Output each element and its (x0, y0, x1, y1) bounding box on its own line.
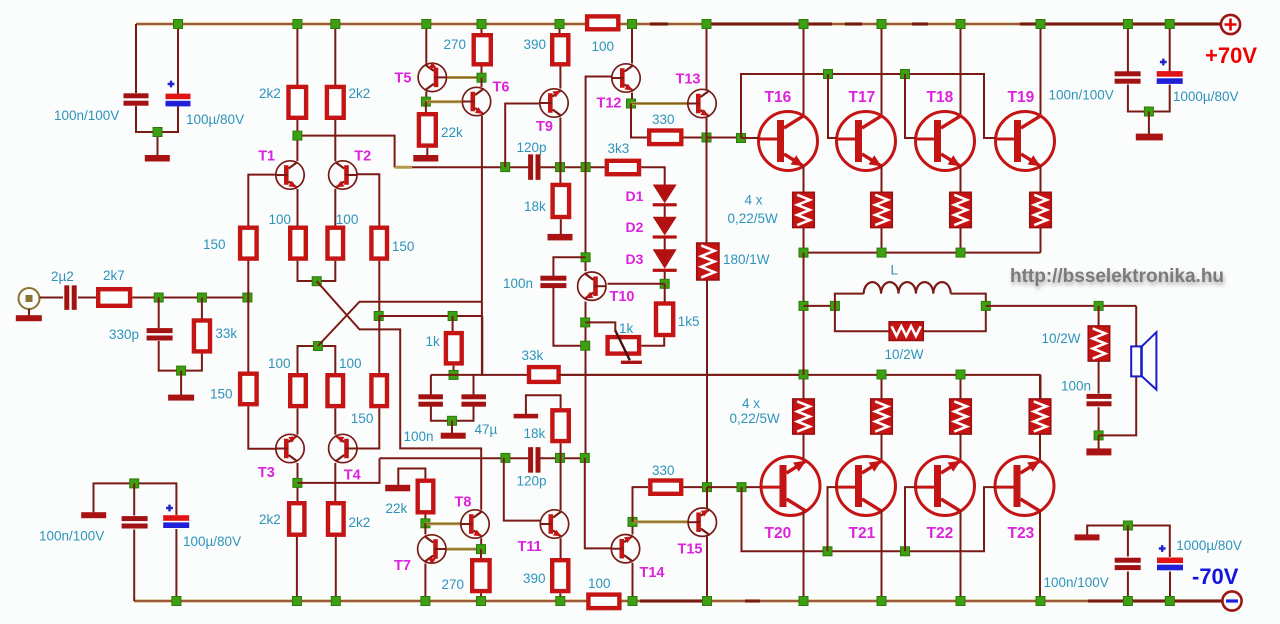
svg-text:100: 100 (588, 576, 611, 591)
node comp j585 (581, 163, 590, 172)
label 18k top (524, 199, 546, 214)
label 1k5 (678, 314, 700, 329)
diode D3 (653, 249, 677, 272)
capacitor 100n/100V bottom-left (122, 516, 148, 528)
svg-text:T14: T14 (640, 565, 665, 581)
wire 2u2 to 2k7 (78, 297, 97, 299)
node rail T16 (799, 248, 808, 257)
capacitor 100n/100V top-left (124, 93, 149, 105)
label 2k2 #4 (349, 515, 371, 530)
svg-text:100n: 100n (404, 429, 434, 444)
node BL cap top (130, 479, 139, 488)
transistor T23 (995, 457, 1054, 516)
wire T23 rail corner (1040, 375, 1042, 399)
node input net j3 (243, 293, 252, 302)
svg-text:180/1W: 180/1W (723, 252, 770, 267)
node upper tail (312, 277, 321, 286)
label T1 (258, 149, 275, 165)
wire T14 collector to bus (632, 563, 634, 601)
wire T5 bottom to 22k node (425, 92, 427, 102)
node rail T18 (956, 248, 965, 257)
svg-text:2µ2: 2µ2 (51, 269, 74, 284)
node bus TR2 (1165, 20, 1174, 29)
wire T9 base (505, 104, 540, 168)
svg-text:1000µ/80V: 1000µ/80V (1176, 538, 1242, 553)
label 100u/80V top-left (186, 112, 244, 127)
node 22k top (421, 97, 430, 106)
wire T12 emitter to node (631, 93, 633, 104)
label T18 (927, 89, 954, 106)
capacitor 100u/80V bottom-left (163, 515, 189, 528)
transistor T18 (916, 112, 975, 171)
node L left (830, 301, 839, 310)
wire T21 resistor to emitter (881, 434, 883, 461)
label -70V (1192, 564, 1239, 589)
wire D3 to bias node (664, 272, 666, 284)
node top bus x=881.5 (877, 20, 886, 29)
resistor 270 top (474, 35, 491, 64)
polarity + bottom-left elco (166, 505, 173, 512)
svg-text:47µ: 47µ (475, 422, 498, 437)
wire T8 base olive (425, 522, 460, 525)
wire T20 resistor to emitter (803, 434, 805, 461)
wire comp line y458 (380, 457, 529, 459)
svg-text:100µ/80V: 100µ/80V (183, 534, 241, 549)
transistor T1 (276, 161, 304, 189)
polarity + of top-left electrolytic (168, 81, 175, 88)
capacitor 100n mid (540, 276, 566, 288)
wire T17 collector to bus (881, 24, 883, 116)
wire T15 bottom to bus (706, 537, 708, 602)
node 330top/T13/180 (702, 133, 711, 142)
wire T12 collector to bus (631, 24, 633, 64)
svg-text:T19: T19 (1008, 89, 1035, 106)
wire 390 top to bus (559, 24, 561, 34)
capacitor 2u2 input (64, 285, 76, 310)
node bias bottom (660, 279, 669, 288)
wire T12 node to 330 top (631, 104, 648, 138)
resistor 22k top (419, 114, 436, 145)
wire 33k-in bottom lead (181, 354, 202, 371)
label 2k2 #1 (259, 86, 281, 101)
wire 100n-mid top bracket (553, 257, 585, 276)
resistor 2k2 #3 bottom (289, 503, 304, 535)
wire T19 rail corner (1040, 228, 1042, 253)
svg-text:100: 100 (592, 39, 615, 54)
label 100 #2 (336, 212, 359, 227)
resistor 0,22/5W emitter T20 (793, 399, 815, 434)
label 330p (109, 327, 139, 342)
label 4 x top (745, 193, 763, 208)
transistor T21 (837, 457, 896, 516)
transistor T6 (462, 87, 490, 115)
wire 390-bot to bus (559, 593, 561, 601)
wire 180/1W top lead (706, 138, 708, 244)
node feedback mid (374, 312, 383, 321)
svg-text:T1: T1 (258, 149, 275, 165)
wire top +70V bus (tan base) (136, 22, 1221, 25)
svg-text:150: 150 (392, 239, 415, 254)
node bottom bus x=425.4 (421, 597, 430, 606)
wire T7 base olive (447, 548, 482, 551)
node T7 base / 270b (477, 545, 486, 554)
resistor 100 #1 (290, 228, 306, 259)
wire T11 emitter to 390 (560, 538, 562, 559)
wire bottom emitter rail (559, 374, 1041, 376)
svg-text:T2: T2 (354, 149, 371, 165)
wire T4 collector down (334, 463, 336, 501)
transistor T14 (611, 535, 639, 563)
node T17 base drop (824, 70, 833, 79)
svg-text:T13: T13 (676, 72, 701, 88)
wire TR ground stub (1148, 112, 1150, 135)
terminal +70V (1221, 15, 1240, 34)
wire 2k2#1 to T1 collector (296, 120, 298, 161)
svg-text:270: 270 (442, 577, 465, 592)
svg-text:1000µ/80V: 1000µ/80V (1173, 89, 1239, 104)
label L (891, 263, 899, 278)
wire zobel 10/2W top lead (1098, 306, 1100, 327)
wire T2 base to 150RT (356, 174, 379, 226)
resistor 1k5 (656, 304, 673, 336)
wire cap BL1 top (133, 483, 135, 515)
label 2k2 #3 (259, 512, 281, 527)
ground 22k bottom (385, 485, 410, 492)
label 390 top (524, 37, 547, 52)
node T18 base drop (901, 70, 910, 79)
wire 3k3 to diode chain (641, 167, 665, 185)
wire T19 resistor to rail (1040, 228, 1042, 253)
wire T5 base olive (447, 76, 482, 79)
svg-text:330: 330 (652, 112, 675, 127)
wire bottom bus maroon core (134, 600, 1222, 602)
label 150 left-bottom (210, 387, 233, 402)
wire T22 base drop (905, 487, 915, 551)
wire T17 resistor to rail (881, 228, 883, 253)
wire comp2 after 120p (540, 457, 584, 459)
wire cap BR1 bottom (1127, 572, 1129, 602)
label T20 (765, 525, 792, 542)
wire 33k-in top lead (201, 298, 203, 320)
svg-text:2k2: 2k2 (349, 515, 371, 530)
wire 18k-bot top bracket (526, 395, 561, 414)
node zobel ground (1094, 431, 1103, 440)
svg-text:T3: T3 (258, 465, 275, 481)
wire T20 collector to bus (803, 511, 805, 601)
wire D2-D3 (664, 238, 666, 249)
wire 2k2#2 to T2 collector (334, 120, 336, 161)
svg-text:150: 150 (203, 237, 226, 252)
ground input filter (168, 395, 194, 401)
svg-text:150: 150 (210, 387, 233, 402)
label T16 (765, 89, 792, 106)
transistor T7 (418, 535, 446, 565)
wire upper tail diagonal (317, 281, 482, 510)
svg-text:T7: T7 (394, 558, 411, 574)
capacitor 100u/80V top-left electrolytic (166, 94, 191, 107)
resistor 330 bottom (650, 481, 681, 494)
svg-text:T21: T21 (849, 525, 876, 542)
polarity + bottom-right elco (1159, 545, 1166, 552)
svg-text:+70V: +70V (1205, 43, 1257, 68)
label 100n/100V bottom-left (39, 529, 104, 544)
node bottom bus x=335.8 (331, 597, 340, 606)
label 22k top (441, 125, 463, 140)
wire bias rail to drivers (707, 137, 742, 139)
label D2 (626, 219, 644, 235)
capacitor 100n zobel (1087, 394, 1112, 406)
svg-text:270: 270 (444, 37, 467, 52)
label T3 (258, 465, 275, 481)
resistor 10/2W parallel (889, 322, 923, 341)
wire T8 bottom to 270 node (480, 538, 482, 549)
node top bus x=803.5 (799, 20, 808, 29)
wire 100#1 to tail (298, 261, 336, 281)
ground comp caps (441, 433, 466, 439)
wire elco C-TL2 bottom lead (158, 107, 179, 133)
wire 33k to output rail (561, 374, 804, 376)
svg-text:100n/100V: 100n/100V (1049, 88, 1114, 103)
label T7 (394, 558, 411, 574)
label 100 top rail (592, 39, 615, 54)
node bus BR1 (1123, 597, 1132, 606)
capacitor 330p (147, 328, 173, 340)
label 100n zobel (1061, 379, 1091, 394)
wire L loop top-left (835, 294, 864, 306)
wire T23 resistor to emitter (1039, 434, 1041, 461)
wire 18k-bot to comp node (560, 443, 562, 458)
label 270 bottom (442, 577, 465, 592)
label T13 (676, 72, 701, 88)
wire 1k top lead (452, 316, 454, 332)
svg-text:33k: 33k (522, 348, 544, 363)
wire T17 emitter to resistor (881, 166, 883, 193)
label 2k2 #2 (349, 86, 371, 101)
wire T16 collector to bus (803, 24, 805, 116)
wire top bus maroon overlay right (650, 23, 1221, 26)
node top bus x=178 (174, 20, 183, 29)
ground 22k top (413, 155, 438, 162)
wire 22k-bot to node (424, 515, 426, 524)
node T5 base / 270 (477, 73, 486, 82)
wire T18 emitter to resistor (960, 166, 962, 193)
trimmer 1k (pot) (608, 331, 640, 361)
wire top emitter rail (804, 252, 1041, 254)
wire T3-collector to comp line (297, 458, 379, 483)
node bottom bus x=803.5 (799, 597, 808, 606)
node T10e j2 (581, 341, 590, 350)
node L right (981, 301, 990, 310)
wire T15 top (706, 487, 708, 508)
node T3 collector (293, 478, 302, 487)
node TR ground (1144, 107, 1153, 116)
wire BL ground bracket (94, 483, 177, 515)
node input filter ground (177, 366, 186, 375)
svg-text:D3: D3 (626, 251, 644, 267)
node T16 base feed (737, 134, 746, 143)
capacitor 1000u/80V bottom-right (1157, 558, 1183, 571)
svg-text:1k5: 1k5 (678, 314, 700, 329)
node input net j2 (197, 293, 206, 302)
wire T11 collector (560, 458, 562, 510)
wire 330p bottom lead (159, 341, 181, 371)
svg-text:330p: 330p (109, 327, 139, 342)
svg-text:100n: 100n (1061, 379, 1091, 394)
svg-text:390: 390 (523, 571, 546, 586)
wire comp node line (431, 374, 482, 376)
node comp j505 (501, 163, 510, 172)
node BR cap top (1123, 521, 1132, 530)
label 120p top (517, 140, 547, 155)
svg-text:1k: 1k (619, 321, 634, 336)
wire T15 base olive (633, 520, 688, 523)
svg-text:T20: T20 (765, 525, 792, 542)
wire L loop bottom-right (923, 306, 986, 331)
terminal pot wiper bar (621, 361, 642, 364)
node top bus x=1040.5 (1036, 20, 1045, 29)
wire T3 base chain (247, 298, 249, 373)
wire T5 collector to bus (425, 24, 427, 64)
wire 150LB to T3 base (248, 406, 277, 448)
svg-text:150: 150 (351, 411, 374, 426)
wire 330 top right lead (684, 137, 707, 139)
resistor 0,22/5W emitter T18 (950, 192, 972, 227)
label T15 (678, 542, 703, 558)
label 100n comp (404, 429, 434, 444)
resistor 0,22/5W emitter T19 (1030, 192, 1052, 227)
label 47u comp (475, 422, 498, 437)
wire speaker drop (1099, 306, 1137, 436)
wire input filter ground stub (180, 371, 182, 395)
diode D2 (653, 217, 677, 239)
node bottom bus x=881.5 (877, 597, 886, 606)
label 390 bottom (523, 571, 546, 586)
wire T3 collector down (297, 463, 299, 501)
label 330 top (652, 112, 675, 127)
wire T3 top to 100#3 (297, 408, 299, 434)
wire zobel mid (1098, 361, 1100, 393)
svg-text:1k: 1k (426, 334, 441, 349)
wire 2k7 to input node (132, 297, 248, 299)
label 0,22/5W bottom (730, 411, 781, 426)
resistor 2k2 #4 bottom (328, 503, 344, 535)
node top bus x=632 (628, 20, 637, 29)
wire 330p top lead (158, 298, 160, 329)
node input net j1 (154, 293, 163, 302)
svg-text:T15: T15 (678, 542, 703, 558)
wire 22k top lead (425, 102, 427, 113)
svg-text:T8: T8 (455, 495, 472, 511)
node bus TR1 (1123, 20, 1132, 29)
wire T18 base drop (905, 74, 915, 138)
node top bus x=706.5 (702, 20, 711, 29)
node 330bot/T15/180 (703, 483, 712, 492)
wire 270 top to bus (481, 24, 483, 34)
wire T11 base (504, 458, 540, 521)
svg-text:D1: D1 (626, 188, 644, 204)
wire T6 emitter long vertical (481, 116, 483, 375)
node top bus x=426.3 (422, 20, 431, 29)
wire cap TR1 bottom (1128, 85, 1149, 112)
node bottom bus x=960.5 (956, 597, 965, 606)
resistor 100 bottom rail (588, 595, 619, 609)
label 120p bottom (517, 474, 547, 489)
resistor 150 right-bottom (371, 375, 387, 406)
node comp ground (448, 416, 457, 425)
resistor 330 top (649, 131, 681, 145)
capacitor 100n/100V top-right (1115, 71, 1141, 83)
wire ground stub top-left (157, 132, 159, 155)
node 100n-mid top (581, 253, 590, 262)
resistor 150 left-top (240, 228, 257, 259)
node rail T21 (877, 370, 886, 379)
wire T23 rail to resistor (1039, 375, 1041, 400)
svg-text:10/2W: 10/2W (885, 347, 924, 362)
svg-text:22k: 22k (386, 501, 408, 516)
terminal -70V (1222, 591, 1241, 610)
svg-text:T4: T4 (344, 468, 361, 484)
label 150 right-bottom (351, 411, 374, 426)
node comp2 j585 (580, 453, 589, 462)
label T21 (849, 525, 876, 542)
wire 330-bot left lead (633, 487, 649, 522)
resistor 2k2 #2 top (327, 87, 344, 118)
wire cap C-TL1 top lead (135, 24, 137, 93)
svg-text:22k: 22k (441, 125, 463, 140)
wire 150LT to T1 base (248, 175, 276, 226)
label T5 (395, 71, 412, 87)
label 3k3 (608, 141, 630, 156)
node bottom bus x=632.5 (628, 597, 637, 606)
ground top-right (1136, 134, 1163, 141)
ground zobel (1086, 448, 1111, 455)
node comp caps (449, 370, 458, 379)
wire T23 collector to bus (1039, 511, 1041, 601)
wire output vertical (803, 253, 805, 375)
node bus BR2 (1165, 597, 1174, 606)
wire 390 to T9 (559, 67, 561, 89)
label T8 (455, 495, 472, 511)
transistor T20 (761, 457, 820, 516)
label +70V (1205, 43, 1257, 68)
ground 18k bottom (514, 414, 539, 419)
svg-text:0,22/5W: 0,22/5W (728, 211, 779, 226)
label 100n/100V bottom-right (1044, 575, 1109, 590)
transistor T22 (916, 457, 975, 516)
transistor T2 (329, 161, 357, 189)
wire T10 base (608, 283, 665, 285)
wire 180/1W bottom long (706, 280, 708, 487)
wire 150RB to T4 base (357, 408, 380, 448)
wire elco BL2 bottom (175, 529, 177, 601)
capacitor 120p bottom (528, 447, 540, 473)
wire 2k2#3 to bus (296, 537, 298, 601)
ground bottom-left (81, 512, 106, 518)
svg-text:100: 100 (268, 356, 291, 371)
wire 2k2#4 to bus (335, 537, 337, 601)
svg-text:100n: 100n (503, 276, 533, 291)
resistor 0,22/5W emitter T23 (1029, 399, 1051, 434)
resistor 2k7 input (98, 289, 130, 306)
wire base rail to T20 (707, 486, 761, 488)
resistor 100 #2 (328, 228, 344, 259)
wire T17 base drop (828, 74, 837, 138)
wire T18 collector to bus (960, 24, 962, 116)
ground bottom-right (1075, 534, 1100, 540)
wire 270-bot to bus (480, 593, 482, 601)
label 150 left-top (203, 237, 226, 252)
wire T16 resistor to rail (803, 228, 805, 253)
